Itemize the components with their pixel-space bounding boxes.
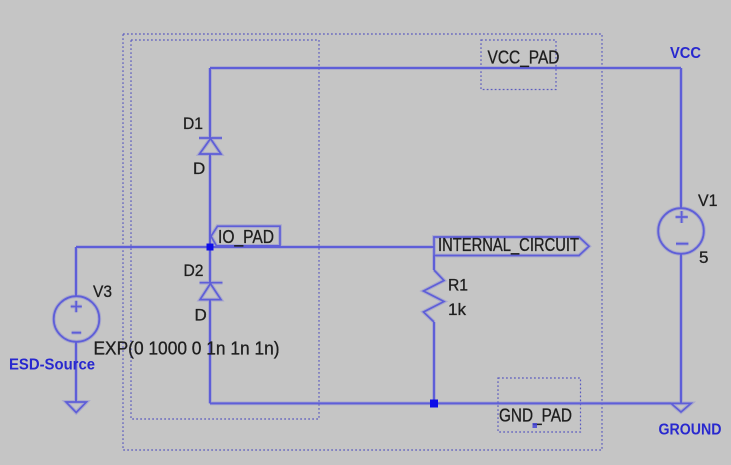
svg-text:VCC: VCC [670, 45, 701, 62]
diode D1 [199, 138, 222, 154]
svg-text:V3: V3 [93, 282, 112, 301]
port flag INTERNAL_CIRCUIT [434, 237, 589, 256]
port flag IO_PAD [211, 226, 280, 246]
ground symbol of V3 [66, 402, 86, 413]
wire D1 top vertical [209, 68, 211, 138]
wire D1 bottom to junction [209, 154, 211, 247]
diode D2 [200, 283, 223, 300]
tiny anchor mark under GND_PAD [533, 423, 538, 428]
wire V1 upper vertical [680, 68, 682, 208]
wire top horizontal VCC net [210, 67, 681, 69]
soft halo under wiring (decorative blur imitation) [54, 68, 704, 413]
inner dashed box [131, 40, 319, 419]
wire V3 bottom vertical [75, 342, 77, 402]
svg-text:INTERNAL_CIRCUIT: INTERNAL_CIRCUIT [438, 235, 579, 256]
VCC_PAD dashed box [481, 40, 556, 90]
ground symbol of GROUND net [671, 403, 691, 412]
wire D2 anode down [209, 300, 211, 404]
svg-text:ESD-Source: ESD-Source [9, 357, 95, 374]
svg-text:D: D [193, 159, 205, 178]
svg-text:1k: 1k [448, 300, 466, 319]
voltage source V1 [658, 208, 704, 254]
svg-text:R1: R1 [448, 275, 468, 294]
svg-text:D: D [195, 306, 207, 325]
resistor R1 [424, 270, 445, 322]
svg-text:V1: V1 [698, 191, 718, 210]
wire V3 top vertical [75, 247, 77, 296]
wire IO_PAD horizontal [76, 246, 434, 248]
svg-text:D2: D2 [184, 261, 204, 280]
svg-text:EXP(0 1000 0 1n 1n 1n): EXP(0 1000 0 1n 1n 1n) [94, 339, 280, 359]
outer dashed boundary box [123, 34, 602, 450]
svg-text:GROUND: GROUND [659, 422, 722, 439]
junction node ground rail / R1 [430, 400, 438, 408]
svg-text:5: 5 [699, 248, 708, 267]
wire D2 junction to bar [209, 247, 211, 283]
wire V1 lower vertical [680, 254, 682, 403]
wire R1 bottom vertical [433, 322, 435, 403]
wire ground rail horizontal [210, 402, 671, 404]
GND_PAD dashed box [498, 378, 581, 432]
svg-text:VCC_PAD: VCC_PAD [488, 48, 560, 69]
wire R1 top vertical [433, 256, 435, 271]
junction node IO_PAD [207, 244, 214, 251]
voltage source V3 [54, 296, 100, 342]
svg-text:IO_PAD: IO_PAD [218, 227, 274, 248]
svg-text:D1: D1 [183, 114, 203, 133]
